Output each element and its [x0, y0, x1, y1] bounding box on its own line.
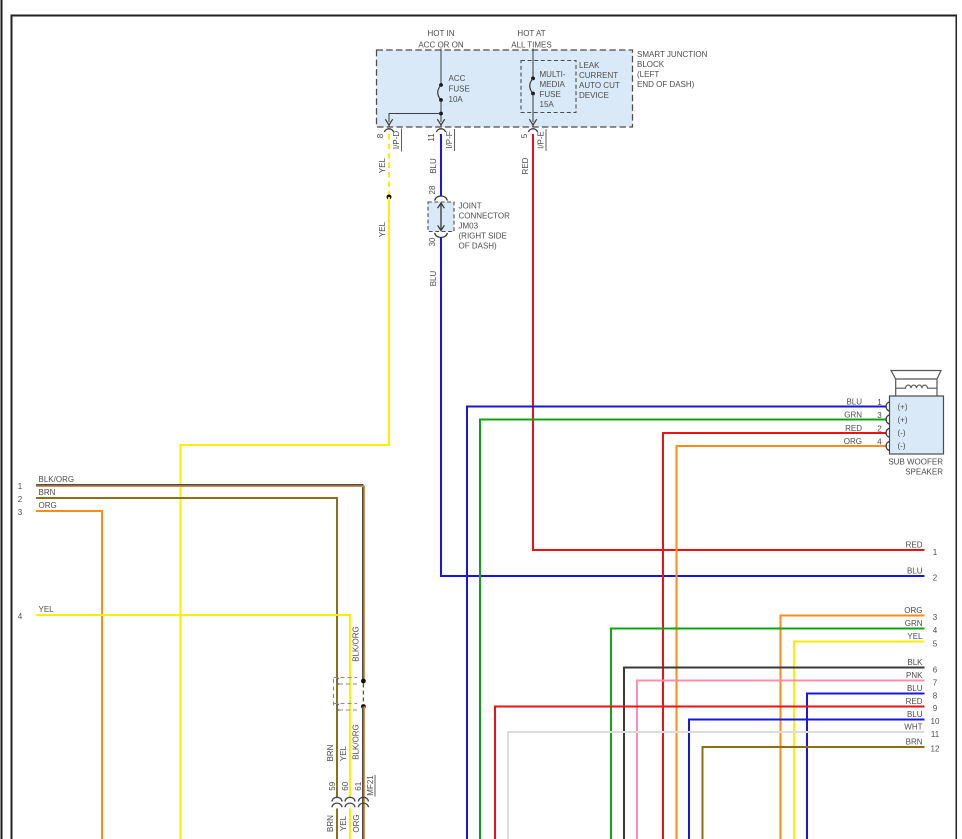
wire BLK/ORG left pin 1 (orange stripe)	[36, 486, 364, 681]
svg-text:GRN: GRN	[905, 619, 923, 628]
arrow into pin 11	[437, 119, 444, 127]
svg-text:10A: 10A	[449, 95, 464, 104]
svg-text:FUSE: FUSE	[449, 85, 470, 94]
fuse ACC FUSE 10A	[438, 74, 470, 104]
svg-text:3: 3	[18, 508, 23, 517]
wire YEL dashed from pin 8	[388, 134, 390, 196]
svg-text:15A: 15A	[540, 100, 555, 109]
label HOT AT ALL TIMES	[511, 29, 551, 50]
wire BLU from JM03 to right pin 2	[441, 237, 925, 576]
wire BLU speaker pin 1	[467, 407, 887, 839]
svg-text:WHT: WHT	[904, 723, 922, 732]
connector pin 11 I/P-F	[427, 129, 455, 151]
svg-text:CURRENT: CURRENT	[579, 71, 618, 80]
svg-text:JM03: JM03	[459, 222, 479, 231]
svg-text:HOT AT: HOT AT	[517, 29, 545, 38]
arrow into pin 5	[529, 119, 536, 127]
wire GRN speaker pin 3	[480, 420, 887, 839]
svg-text:4: 4	[933, 626, 938, 635]
connector arc on BRN wire top	[337, 678, 339, 685]
svg-text:11: 11	[931, 730, 940, 739]
svg-text:8: 8	[376, 133, 385, 138]
svg-text:JOINT: JOINT	[459, 202, 482, 211]
svg-text:YEL: YEL	[378, 221, 387, 237]
svg-text:1: 1	[933, 548, 938, 557]
connector pin 8 I/P-D	[376, 129, 402, 152]
page outer left border	[0, 0, 2, 839]
wire RED from pin 5 to right pin 1	[533, 134, 925, 550]
connector arc speaker pin 1	[886, 402, 889, 411]
connector arc pin 28	[435, 196, 447, 201]
svg-text:BLU: BLU	[429, 270, 438, 286]
svg-text:11: 11	[427, 133, 436, 142]
svg-text:GRN: GRN	[844, 411, 862, 420]
wire branch to pin 8	[389, 114, 441, 123]
svg-text:6: 6	[933, 665, 938, 674]
svg-text:CONNECTOR: CONNECTOR	[459, 212, 511, 221]
label SMART JUNCTION BLOCK (LEFT END OF DASH)	[637, 50, 708, 89]
wire PNK right pin 7	[637, 681, 925, 839]
svg-text:12: 12	[931, 745, 940, 754]
svg-text:BLK/ORG: BLK/ORG	[351, 724, 360, 760]
wire GRN right pin 4	[611, 628, 925, 839]
svg-text:MEDIA: MEDIA	[540, 80, 566, 89]
svg-text:DEVICE: DEVICE	[579, 91, 609, 100]
label HOT IN ACC OR ON	[418, 29, 464, 50]
option splice dashed left edge	[333, 679, 335, 709]
svg-text:I/P-F: I/P-F	[445, 131, 454, 148]
svg-text:RED: RED	[906, 541, 923, 550]
svg-text:BLU: BLU	[429, 158, 438, 174]
svg-text:BLU: BLU	[907, 684, 923, 693]
svg-text:(RIGHT SIDE: (RIGHT SIDE	[459, 232, 507, 241]
svg-text:BLOCK: BLOCK	[637, 60, 665, 69]
svg-text:4: 4	[18, 612, 23, 621]
option splice dashed box top	[334, 678, 358, 685]
wire BLU from pin 11	[440, 134, 442, 196]
svg-text:BLU: BLU	[907, 710, 923, 719]
svg-text:BLK: BLK	[907, 658, 923, 667]
svg-text:5: 5	[933, 640, 938, 649]
svg-text:YEL: YEL	[339, 815, 348, 831]
wire WHT right pin 11	[508, 732, 925, 839]
svg-text:RED: RED	[521, 157, 530, 174]
connector arc on BRN wire bottom	[337, 704, 339, 711]
label JOINT CONNECTOR JM03 (RIGHT SIDE OF DASH)	[459, 202, 511, 251]
svg-text:7: 7	[933, 678, 938, 687]
connector arc speaker pin 2	[886, 428, 889, 437]
svg-text:9: 9	[933, 704, 938, 713]
wire YEL left pin 4	[36, 615, 350, 798]
svg-text:END OF DASH): END OF DASH)	[637, 80, 695, 89]
wire BLK/ORG left pin 1 (black part)	[36, 485, 363, 681]
wire dashed segment between splices	[362, 684, 364, 704]
svg-text:BLU: BLU	[846, 398, 862, 407]
svg-text:ACC: ACC	[449, 74, 466, 83]
svg-text:YEL: YEL	[907, 632, 923, 641]
wire ORG right pin 3	[781, 615, 925, 839]
wire ORG speaker pin 4	[677, 446, 887, 839]
connector MF21 arcs pin 61	[358, 797, 368, 807]
wire ORG left pin 3	[36, 511, 102, 839]
svg-text:BRN: BRN	[39, 488, 56, 497]
svg-text:28: 28	[428, 185, 437, 194]
svg-text:3: 3	[877, 411, 882, 420]
svg-text:BLU: BLU	[907, 566, 923, 575]
connector arc speaker pin 4	[886, 441, 889, 450]
svg-text:LEAK: LEAK	[579, 61, 600, 70]
wire BRN left pin 2	[36, 498, 337, 798]
svg-text:BRN: BRN	[326, 744, 335, 761]
svg-text:(-): (-)	[898, 442, 906, 451]
label LEAK CURRENT AUTO CUT DEVICE	[579, 61, 620, 100]
svg-text:SMART JUNCTION: SMART JUNCTION	[637, 50, 708, 59]
svg-text:ORG: ORG	[904, 606, 922, 615]
svg-text:61: 61	[354, 781, 363, 790]
label MF21	[366, 775, 375, 797]
connector arc pin 30	[435, 233, 447, 238]
svg-text:PNK: PNK	[906, 671, 923, 680]
label SUB WOOFER SPEAKER	[888, 458, 943, 477]
connector MF21 arcs pin 59	[332, 797, 342, 807]
svg-text:I/P-E: I/P-E	[537, 131, 546, 149]
connector pin 5 I/P-E	[520, 129, 546, 151]
leak current auto cut device box	[521, 61, 576, 113]
wire BLK/ORG continues down (black part)	[362, 707, 364, 839]
svg-text:5: 5	[520, 133, 529, 138]
wire BRN right pin 12	[703, 747, 925, 839]
node splice top on BLK/ORG	[361, 679, 366, 684]
svg-text:BLK/ORG: BLK/ORG	[351, 626, 360, 662]
svg-text:ACC OR ON: ACC OR ON	[418, 41, 464, 50]
svg-text:HOT IN: HOT IN	[428, 29, 455, 38]
node splice on YEL	[387, 195, 392, 200]
svg-text:8: 8	[933, 691, 938, 700]
svg-text:30: 30	[428, 237, 437, 246]
svg-text:SPEAKER: SPEAKER	[905, 468, 943, 477]
svg-text:60: 60	[341, 781, 350, 790]
connector MF21 arcs pin 60	[345, 797, 355, 807]
svg-text:SUB WOOFER: SUB WOOFER	[888, 458, 943, 467]
svg-text:YEL: YEL	[339, 745, 348, 761]
svg-text:1: 1	[877, 398, 882, 407]
svg-text:YEL: YEL	[378, 157, 387, 173]
svg-text:2: 2	[18, 495, 23, 504]
wire BRN below MF21	[336, 809, 338, 839]
svg-text:MULTI-: MULTI-	[540, 70, 566, 79]
wire BLK right pin 6	[624, 668, 925, 839]
speaker symbol	[891, 371, 941, 397]
svg-text:ORG: ORG	[844, 437, 862, 446]
wire RED speaker pin 2	[663, 433, 887, 839]
wire BLU right pin 8	[807, 694, 925, 839]
wire from HOT IN feed	[440, 49, 442, 86]
svg-text:RED: RED	[906, 697, 923, 706]
svg-text:AUTO CUT: AUTO CUT	[579, 81, 620, 90]
wire YEL solid down and left to bottom	[181, 197, 390, 839]
svg-text:(-): (-)	[898, 429, 906, 438]
fuse MULTI-MEDIA FUSE 15A	[530, 70, 566, 109]
junction node	[439, 112, 443, 116]
svg-text:59: 59	[328, 781, 337, 790]
svg-text:MF21: MF21	[366, 775, 375, 796]
svg-text:ORG: ORG	[352, 814, 361, 832]
wire YEL right pin 5	[794, 642, 925, 839]
svg-text:2: 2	[933, 574, 938, 583]
svg-text:FUSE: FUSE	[540, 90, 561, 99]
sub woofer speaker box U1	[890, 396, 944, 454]
svg-text:2: 2	[877, 425, 882, 434]
wire below multimedia fuse	[532, 94, 534, 123]
wire from HOT AT feed	[532, 49, 534, 79]
svg-text:ORG: ORG	[39, 501, 57, 510]
svg-text:RED: RED	[845, 424, 862, 433]
svg-text:ALL TIMES: ALL TIMES	[511, 41, 551, 50]
svg-text:4: 4	[877, 438, 882, 447]
svg-text:BRN: BRN	[326, 815, 335, 832]
svg-text:(+): (+)	[898, 403, 908, 412]
smart junction block box	[377, 50, 633, 127]
svg-text:(LEFT: (LEFT	[637, 70, 659, 79]
wire RED right pin 9	[495, 706, 925, 839]
node splice bottom on BLK/ORG	[361, 704, 366, 709]
joint connector JM03 box	[428, 202, 454, 232]
svg-text:(+): (+)	[898, 416, 908, 425]
svg-text:1: 1	[18, 482, 23, 491]
svg-text:OF DASH): OF DASH)	[459, 242, 498, 251]
svg-text:10: 10	[931, 717, 940, 726]
wire BLK/ORG continues down (orange stripe)	[363, 707, 365, 839]
svg-text:3: 3	[933, 613, 938, 622]
option splice dashed box bottom	[334, 704, 358, 711]
connector arc speaker pin 3	[886, 415, 889, 424]
JM03 internal double arrow	[438, 203, 445, 231]
wire below ACC fuse	[440, 100, 442, 122]
arrow into pin 8	[385, 119, 392, 127]
svg-text:BRN: BRN	[906, 737, 923, 746]
svg-text:BLK/ORG: BLK/ORG	[39, 475, 75, 484]
wire BLU right pin 10	[689, 719, 925, 839]
svg-text:I/P-D: I/P-D	[392, 131, 401, 149]
svg-text:YEL: YEL	[39, 605, 55, 614]
wire YEL below MF21	[349, 809, 351, 839]
